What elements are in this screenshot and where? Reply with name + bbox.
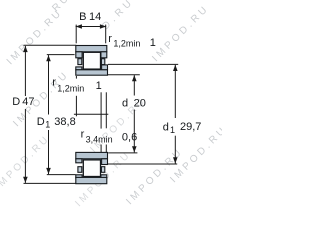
svg-text:r: r xyxy=(81,129,85,141)
wire leader A stub xyxy=(75,76,77,79)
outer ring right flange bottom xyxy=(101,175,107,178)
svg-text:D: D xyxy=(12,96,20,108)
arrow D1 bottom xyxy=(46,168,51,174)
svg-text:1: 1 xyxy=(45,120,50,130)
wire leader B xyxy=(100,92,102,128)
wire B dim line xyxy=(76,26,106,28)
svg-text:r: r xyxy=(108,33,112,45)
arrow d bottom xyxy=(132,146,137,152)
svg-text:29,7: 29,7 xyxy=(180,121,201,133)
arrow B left xyxy=(76,24,82,29)
svg-text:0,6: 0,6 xyxy=(122,131,137,143)
svg-text:r: r xyxy=(52,77,56,89)
wire B ext right xyxy=(105,25,107,44)
bearing bottom section xyxy=(76,152,108,183)
arrow D1 top xyxy=(46,55,51,61)
wire leader A xyxy=(75,96,77,117)
bearing top section xyxy=(76,46,108,76)
svg-text:3,4min: 3,4min xyxy=(86,134,113,144)
inner ring band bottom xyxy=(76,152,108,158)
inner ring left flange bottom xyxy=(76,159,82,163)
inner ring left flange top xyxy=(76,67,82,70)
svg-text:20: 20 xyxy=(134,97,146,109)
wire leader C lower stub xyxy=(105,145,107,153)
wire D1 upper ext xyxy=(47,54,75,56)
svg-text:1: 1 xyxy=(96,80,102,92)
svg-text:d: d xyxy=(163,121,169,133)
arrow d top xyxy=(132,75,137,81)
wire d lower ext xyxy=(108,152,137,154)
wire d1 dim line upper xyxy=(174,65,176,118)
wire D1 lower ext xyxy=(47,174,76,176)
wire d1 lower ext xyxy=(108,163,177,165)
wire D lower ext xyxy=(24,182,76,184)
outer ring right flange top xyxy=(101,52,107,58)
svg-text:38,8: 38,8 xyxy=(54,116,75,128)
roller top xyxy=(83,52,100,69)
wire d upper ext xyxy=(108,74,140,76)
wire axis crossbar xyxy=(74,113,108,115)
outer ring left flange bottom xyxy=(76,175,82,178)
svg-text:d: d xyxy=(122,97,128,109)
wire d1 upper ext xyxy=(108,63,178,65)
wire d dim line lower xyxy=(133,110,135,153)
outer ring left flange top xyxy=(76,52,82,58)
arrow D bottom xyxy=(23,177,28,183)
wire D1 dim line upper xyxy=(48,55,50,114)
inner ring band top xyxy=(76,70,108,75)
wire D dim line upper xyxy=(24,46,26,96)
outer ring band bottom xyxy=(76,177,107,183)
svg-text:1: 1 xyxy=(150,37,156,49)
wire B ext left xyxy=(75,25,77,44)
cage right top xyxy=(101,59,104,65)
svg-text:1,2min: 1,2min xyxy=(57,84,84,94)
svg-text:14: 14 xyxy=(89,11,101,23)
inner ring right flange top xyxy=(102,65,108,70)
wire d dim line upper xyxy=(133,75,135,95)
wire D dim line lower xyxy=(24,109,26,183)
inner ring right flange bottom xyxy=(102,159,108,165)
watermarks xyxy=(0,0,230,209)
svg-text:1: 1 xyxy=(170,125,175,135)
svg-text:B: B xyxy=(79,11,86,23)
arrow D top xyxy=(23,46,28,52)
roller bottom xyxy=(83,160,100,177)
cage left bottom xyxy=(78,167,82,173)
wire d1 dim line lower xyxy=(174,136,176,164)
wire leader B lower stub xyxy=(100,145,102,153)
wire D upper ext xyxy=(24,44,77,46)
cage left top xyxy=(78,59,82,65)
arrow B right xyxy=(100,24,106,29)
outer ring band top xyxy=(76,46,107,52)
cage right bottom xyxy=(101,167,104,173)
svg-text:1,2min: 1,2min xyxy=(113,38,140,48)
svg-text:47: 47 xyxy=(22,96,34,108)
svg-text:D: D xyxy=(37,116,45,128)
wire leader C xyxy=(105,92,107,128)
arrow d1 top xyxy=(173,65,178,71)
wire D1 dim line lower xyxy=(48,130,50,174)
arrow d1 bottom xyxy=(173,157,178,163)
